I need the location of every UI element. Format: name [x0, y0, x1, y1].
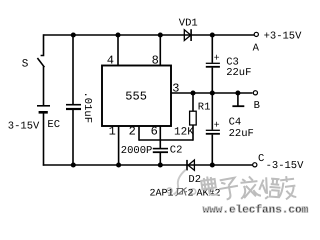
wire top rail: [44, 34, 255, 36]
capacitor C2 plate bottom: [153, 151, 168, 153]
watermark char 4 (shao): [259, 177, 281, 200]
switch S lever: [37, 58, 44, 67]
watermark small loop right: [190, 189, 195, 194]
capacitor C3 bottom lead: [211, 68, 213, 93]
svg-text:3: 3: [172, 81, 179, 95]
watermark small loop left: [167, 188, 172, 193]
svg-text:B: B: [254, 100, 260, 112]
junction bottom rail / C2: [158, 162, 163, 167]
diode D2 triangle: [188, 160, 194, 170]
terminal B circle: [253, 91, 257, 95]
svg-text:C: C: [258, 153, 264, 165]
terminal C circle: [253, 163, 257, 167]
svg-text:4: 4: [107, 54, 114, 68]
wire battery to bottom rail: [43, 114, 45, 166]
diode D2 cathode bar: [186, 160, 188, 171]
wire pin 1: [118, 126, 120, 165]
svg-text:C4: C4: [229, 117, 242, 129]
svg-text:8: 8: [152, 54, 159, 68]
capacitor C1 plate top: [66, 104, 81, 106]
svg-text:2000P: 2000P: [121, 145, 153, 157]
svg-text:12K: 12K: [174, 127, 194, 139]
svg-text:-3-15V: -3-15V: [266, 160, 305, 172]
wire R1 bottom lead: [192, 125, 194, 141]
svg-text:1: 1: [109, 125, 116, 139]
junction top rail / C1: [71, 32, 76, 37]
svg-text:2: 2: [188, 189, 194, 200]
svg-text:6: 6: [151, 125, 158, 139]
svg-text:.01uF: .01uF: [81, 92, 93, 124]
capacitor C4 plate bottom: [206, 133, 220, 135]
junction pin3 / node B stub: [235, 90, 240, 95]
wire bottom rail: [43, 164, 253, 166]
diode VD1 triangle: [184, 30, 191, 41]
wire capacitor C1 branch upper: [72, 35, 74, 104]
svg-text:+: +: [214, 53, 220, 64]
svg-text:2AP1: 2AP1: [150, 189, 174, 200]
wire pin 6: [159, 126, 161, 148]
svg-text:3-15V: 3-15V: [8, 120, 40, 132]
faint part number CJK or-char strokes: [176, 188, 188, 197]
junction pin3 / C3 C4: [210, 90, 215, 95]
battery EC plate short thick: [39, 111, 48, 114]
capacitor C4 plate top: [206, 129, 220, 131]
terminal A circle: [254, 32, 258, 36]
watermark char 1 (dian): [201, 175, 218, 196]
svg-text:R1: R1: [198, 102, 211, 114]
resistor R1: [190, 111, 197, 125]
junction top rail / pin8: [158, 32, 163, 37]
svg-text:D2: D2: [188, 174, 201, 186]
capacitor C3 top lead: [211, 35, 213, 63]
watermark char 2 (zi): [218, 177, 240, 200]
wire pin 8: [159, 35, 161, 66]
op-amp U1 555 box: [102, 66, 171, 127]
node B stub wire: [237, 93, 239, 106]
capacitor C1 plate bottom: [66, 108, 81, 110]
diode VD1 cathode bar: [190, 29, 192, 41]
junction top rail / pin4: [115, 32, 120, 37]
wire pin 2: [138, 126, 140, 141]
svg-text:555: 555: [125, 90, 147, 104]
wire pin2-pin6-R1 connector: [139, 139, 193, 141]
junction bottom rail / C1: [71, 162, 76, 167]
svg-text:22uF: 22uF: [229, 128, 254, 140]
svg-text:+3-15V: +3-15V: [264, 30, 303, 42]
svg-text:www.elecfans.com: www.elecfans.com: [203, 204, 309, 217]
junction bottom rail / C4: [210, 162, 215, 167]
wire pin 3 output line: [171, 92, 253, 94]
watermark swoosh stroke near D2: [174, 170, 187, 195]
capacitor C4 top lead: [211, 93, 213, 130]
wire pin 4: [117, 35, 119, 66]
junction top rail / C3: [210, 32, 215, 37]
node B stub bar: [232, 105, 244, 107]
wire capacitor C1 branch lower: [72, 110, 74, 165]
junction bottom rail / pin1: [116, 162, 121, 167]
wire switch to battery: [43, 67, 45, 106]
svg-text:2: 2: [129, 125, 136, 139]
svg-text:S: S: [22, 58, 29, 70]
capacitor C2 plate top: [153, 148, 168, 150]
svg-text:+: +: [214, 120, 220, 131]
wire left vertical upper (to switch): [41, 34, 44, 55]
watermark char 5 (you): [276, 175, 297, 200]
capacitor C3 plate top: [206, 62, 220, 64]
capacitor C4 bottom lead: [211, 135, 213, 165]
battery EC plate long: [37, 105, 50, 107]
wire R1 top lead: [192, 93, 194, 111]
svg-text:C2: C2: [170, 144, 183, 156]
svg-text:VD1: VD1: [179, 18, 198, 30]
wire C2 to bottom rail: [159, 153, 161, 165]
svg-text:EC: EC: [47, 119, 60, 131]
watermark char 3 (fa): [239, 175, 261, 198]
junction pin3 / R1: [190, 90, 195, 95]
capacitor C3 plate bottom: [206, 66, 220, 68]
svg-text:A: A: [253, 42, 260, 54]
svg-text:22uF: 22uF: [226, 67, 251, 79]
